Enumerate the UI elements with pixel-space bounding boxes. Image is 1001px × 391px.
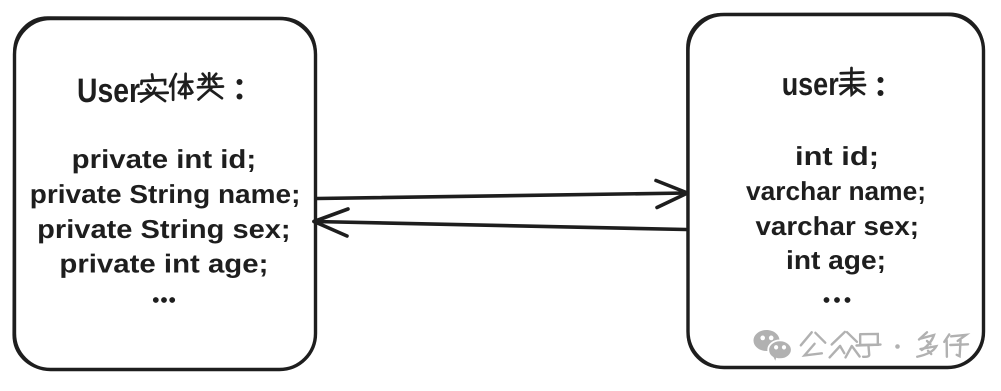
svg-text:int id;: int id; — [795, 141, 879, 171]
watermark text 公众号 · 多仔 — [801, 332, 968, 358]
left title colon — [237, 79, 243, 100]
left entity box — [13, 17, 316, 370]
right table box — [687, 13, 984, 368]
svg-text:private int id;: private int id; — [72, 144, 257, 174]
实 — [139, 74, 168, 101]
arrow left-to-right (top) — [317, 181, 688, 208]
svg-text:private String sex;: private String sex; — [37, 214, 290, 244]
多 — [917, 332, 936, 357]
svg-text:private int age;: private int age; — [59, 249, 268, 279]
svg-text:varchar sex;: varchar sex; — [756, 211, 920, 241]
right title colon — [878, 77, 884, 96]
公 — [801, 332, 825, 355]
svg-text:varchar name;: varchar name; — [746, 176, 926, 206]
svg-text:user: user — [782, 66, 839, 102]
类 — [198, 73, 223, 99]
号 — [856, 334, 880, 357]
svg-text:private String name;: private String name; — [30, 179, 301, 209]
watermark wechat icon — [754, 330, 792, 363]
right ellipsis dots — [824, 297, 851, 303]
mid dot — [895, 344, 900, 349]
left ellipsis dots — [153, 297, 175, 303]
众 — [830, 332, 860, 358]
仔 — [944, 334, 968, 356]
arrow right-to-left (bottom) — [314, 209, 686, 236]
表 — [840, 68, 865, 95]
svg-text:User: User — [77, 72, 140, 110]
体 — [170, 74, 192, 100]
svg-text:int age;: int age; — [786, 245, 886, 275]
